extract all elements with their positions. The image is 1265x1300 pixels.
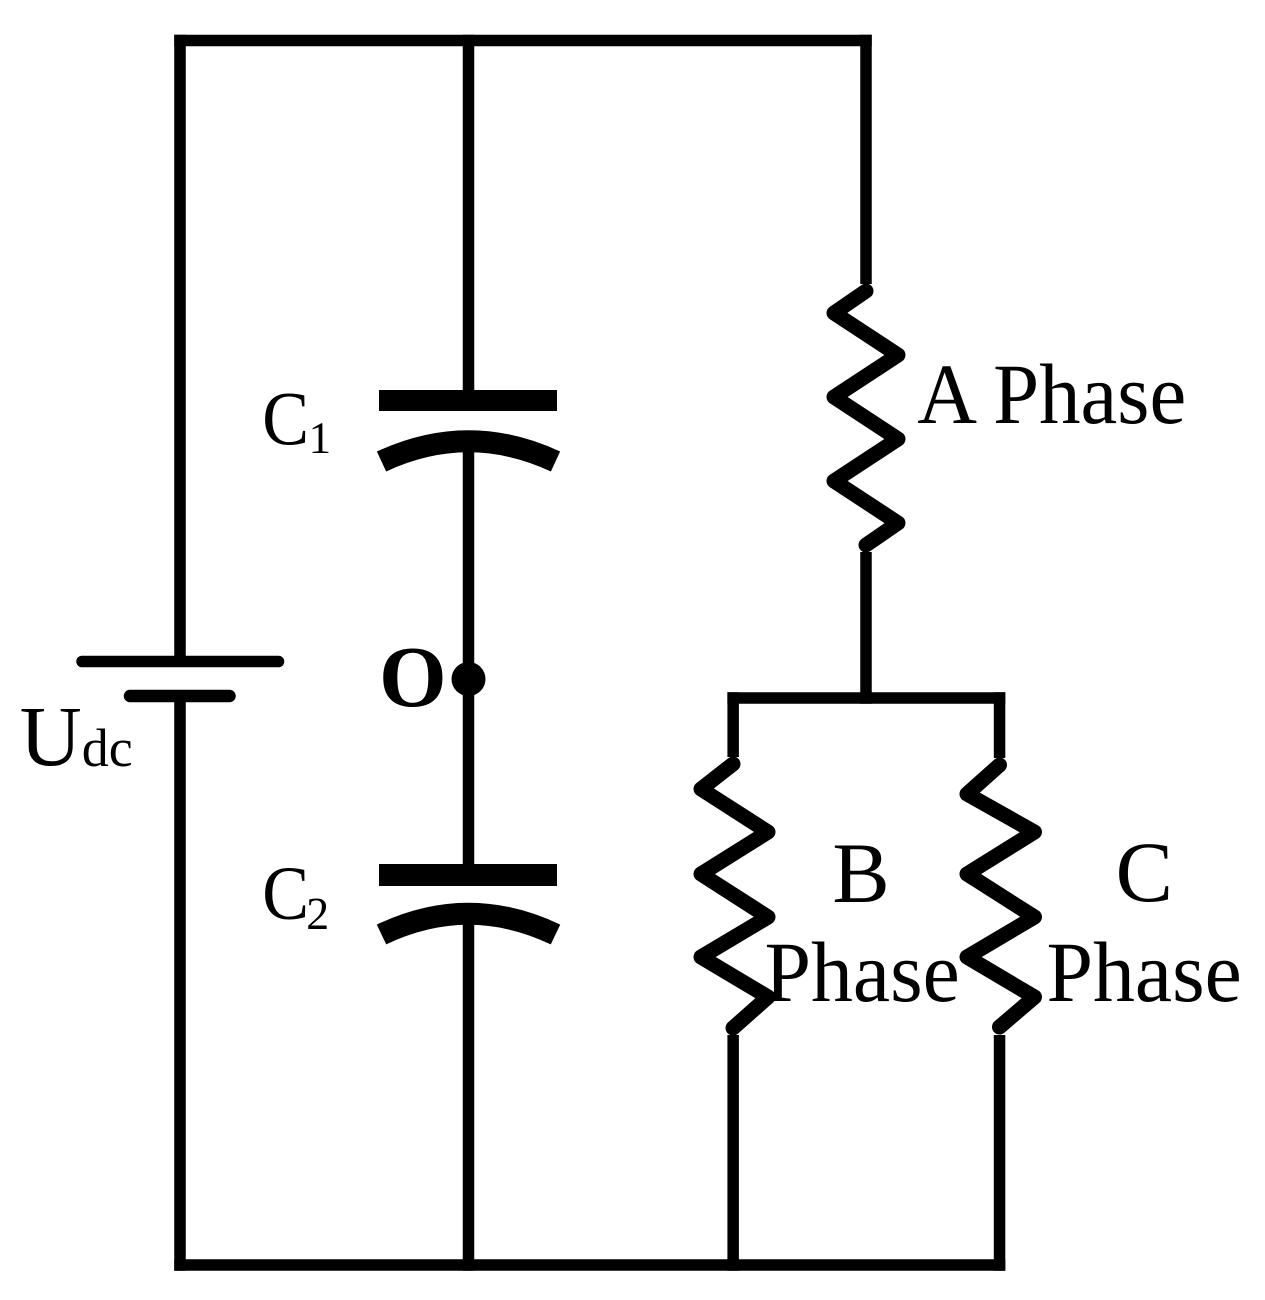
label C1 [262,378,328,462]
svg-text:C: C [262,852,309,936]
wire middle upper (top bus to C1) [463,35,475,391]
svg-text:O: O [379,628,447,725]
wire middle mid (C1 to C2 through node O) [463,451,475,865]
label O [379,628,447,725]
svg-text:Phase: Phase [765,924,960,1020]
capacitor C2 curved plate [382,914,556,935]
wire right upper (top bus down to resistor A) [860,35,872,284]
capacitor C1 curved plate [382,441,556,461]
svg-text:U: U [20,688,82,784]
label B [832,825,889,921]
wire resistor A to mid bus [860,552,872,704]
wire top bus [174,35,872,47]
wire C branch drop [994,692,1006,758]
svg-text:C: C [1116,824,1173,920]
capacitor C2 top plate [379,864,557,886]
svg-text:B: B [832,825,889,921]
label C Phase [1047,924,1242,1020]
wire C branch bottom [994,1035,1006,1271]
wire middle lower (C2 to bottom bus) [463,924,475,1271]
wire B branch drop [727,692,739,757]
svg-text:C: C [262,378,309,462]
resistor B Phase [701,764,768,1028]
capacitor C1 top plate [379,390,557,411]
label C2 [262,852,326,936]
resistor C Phase [967,765,1035,1027]
label C [1116,824,1173,920]
wire B branch bottom [727,1035,739,1271]
battery U_dc long plate (+) [82,656,279,668]
svg-text:Phase: Phase [1047,924,1242,1020]
resistor A Phase [834,291,898,545]
label Udc [20,688,133,784]
wire bottom bus [174,1259,1005,1271]
wire left lower (battery - terminal to bottom bus) [174,696,186,1271]
wire mid bus (B/C branch top) [727,692,1005,704]
node O junction dot [452,662,486,696]
svg-text:dc: dc [82,718,133,778]
label B Phase [765,924,960,1020]
svg-text:A Phase: A Phase [917,346,1186,442]
wire left upper (battery + terminal to top bus) [174,35,186,662]
battery U_dc short plate (-) [130,690,230,703]
label A Phase [917,346,1186,442]
